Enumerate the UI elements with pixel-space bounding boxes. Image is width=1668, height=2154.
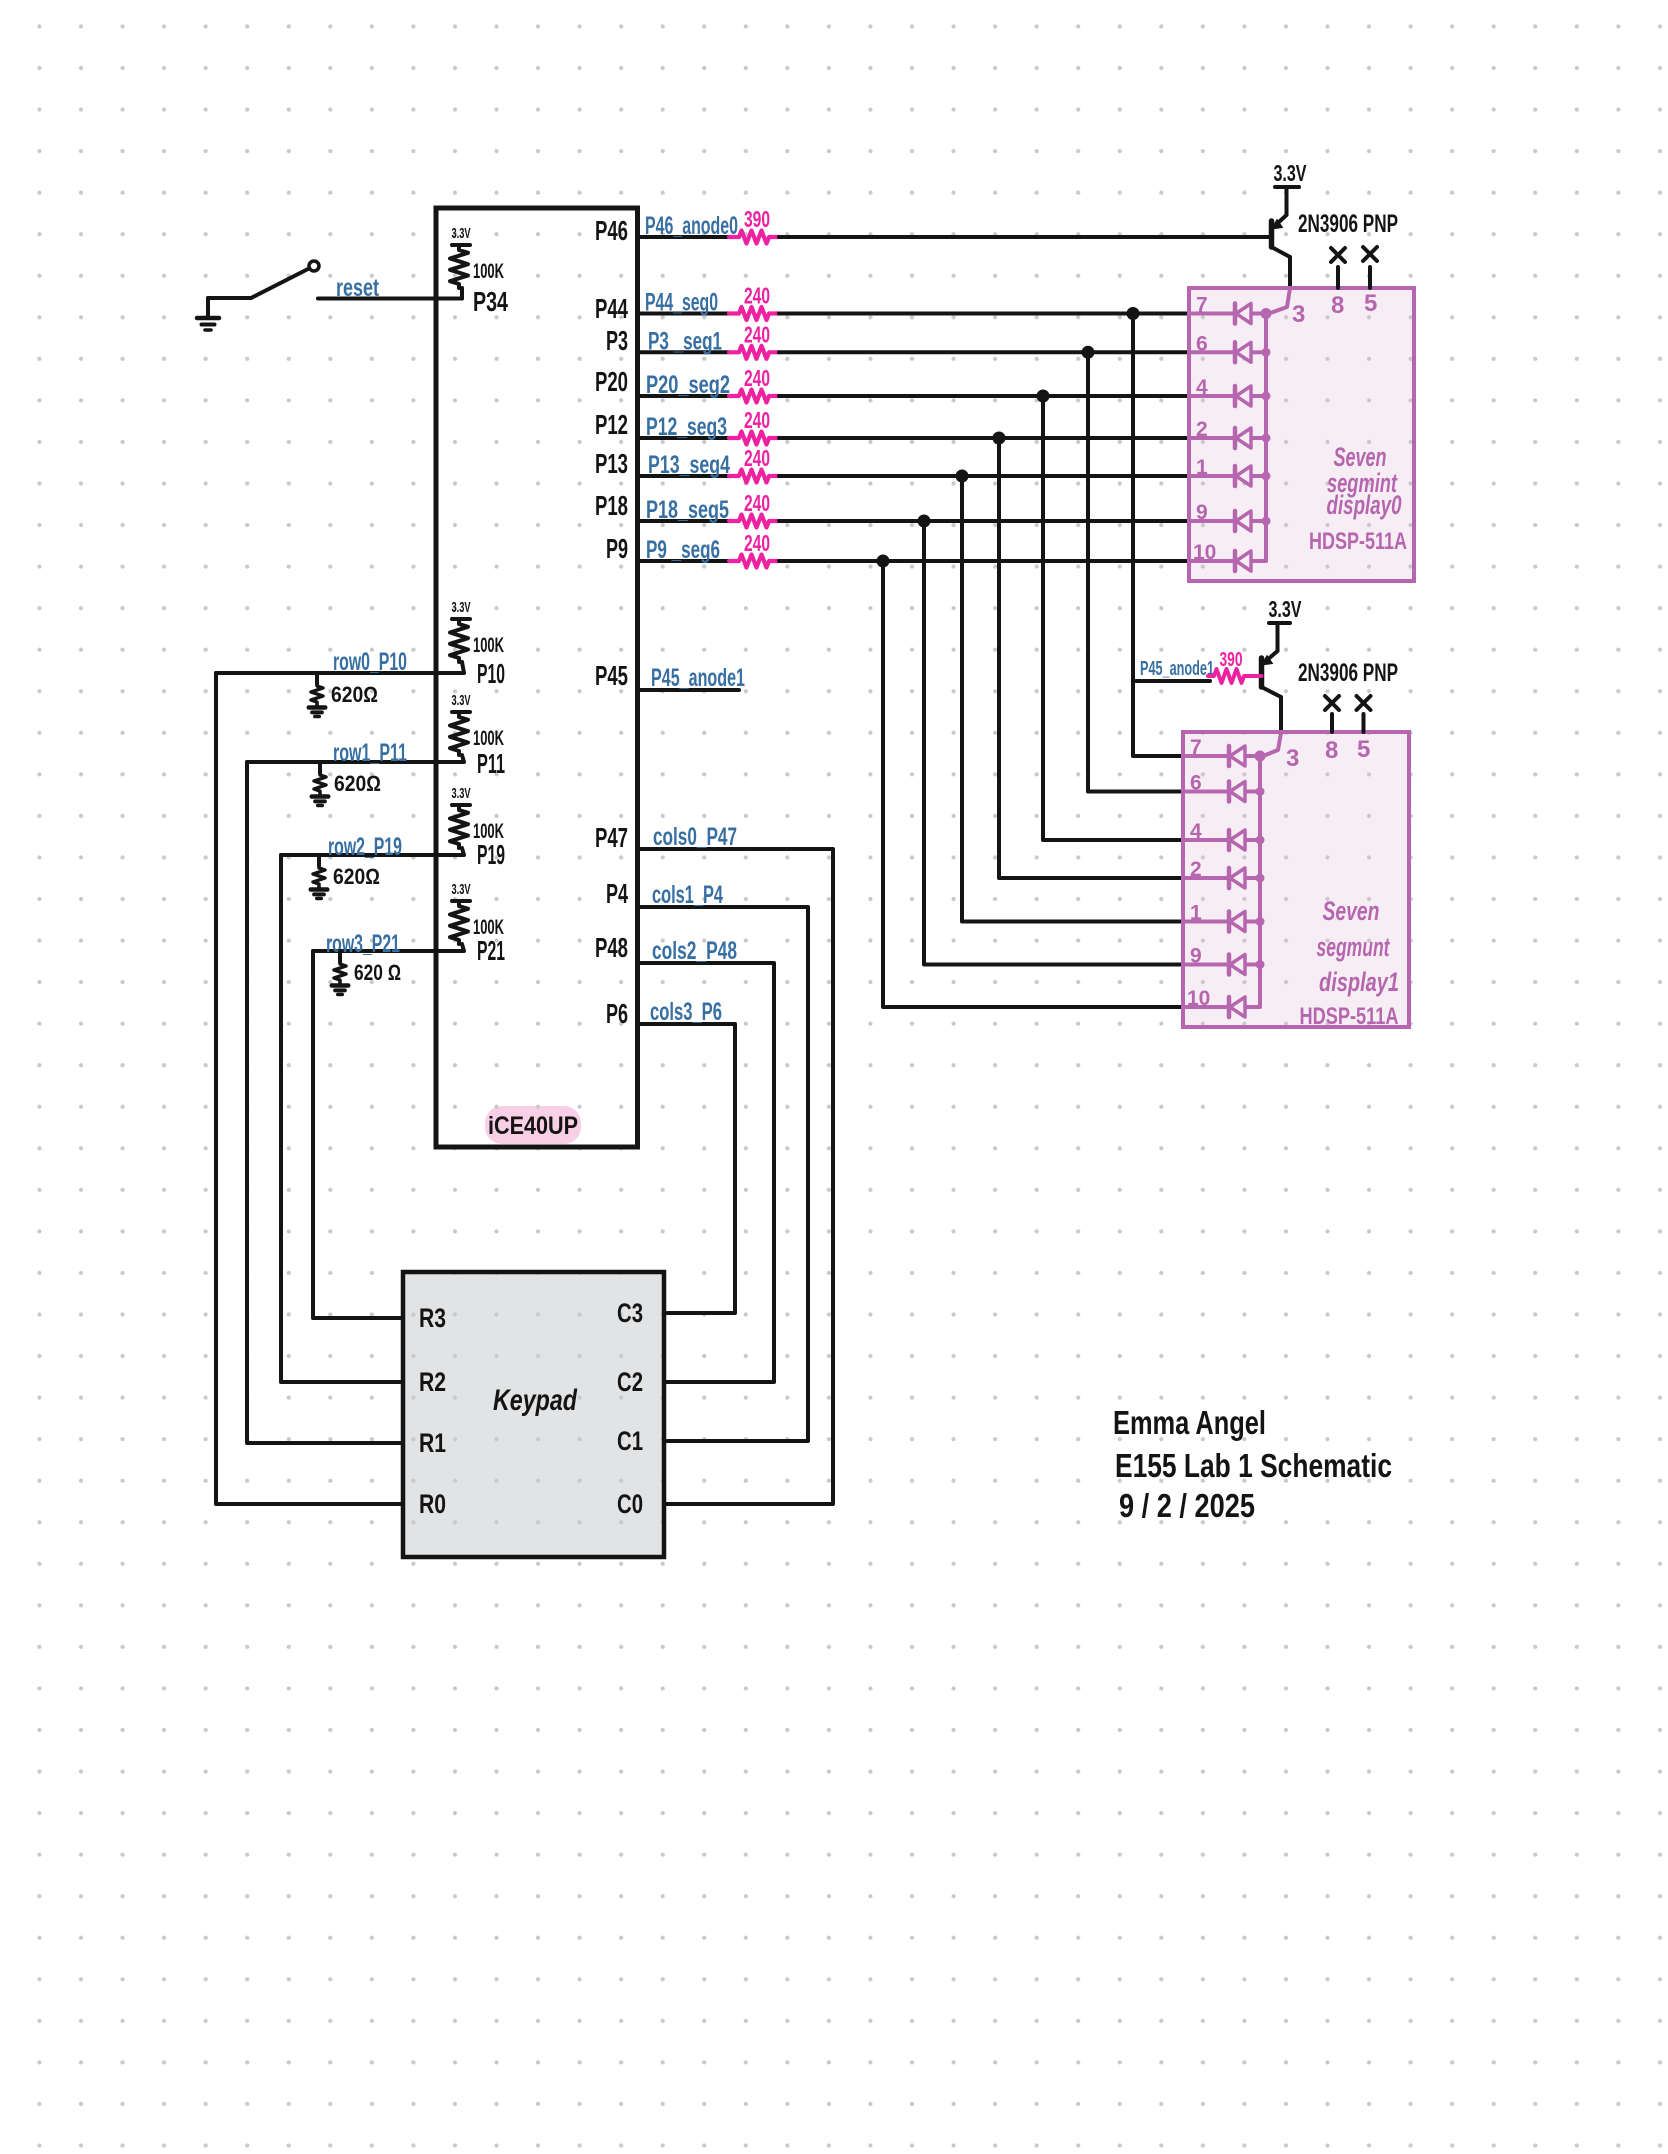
svg-text:P46_anode0: P46_anode0 (645, 212, 738, 240)
svg-text:P12_seg3: P12_seg3 (646, 413, 727, 441)
resistor 620 ohm (row3_P21) (334, 951, 346, 984)
svg-text:cols2_P48: cols2_P48 (652, 937, 737, 965)
svg-text:C2: C2 (617, 1367, 643, 1397)
svg-text:P9 _seg6: P9 _seg6 (646, 536, 720, 564)
svg-text:6: 6 (1190, 772, 1202, 795)
svg-text:100K: 100K (473, 727, 504, 750)
power 3.3V (P10 pull-up) (452, 599, 471, 619)
resistor 100K (P19 pull-up) (450, 806, 504, 848)
junction P3_seg1 node (1082, 346, 1095, 359)
wire P20_seg2 to display1 (1043, 396, 1183, 840)
pin number 9 (display1) (1190, 945, 1202, 968)
svg-text:P11: P11 (477, 748, 505, 779)
svg-text:R2: R2 (419, 1367, 446, 1397)
junction display1 bus pin 9 (1256, 960, 1265, 969)
svg-text:display0: display0 (1327, 490, 1402, 520)
node P20_seg2 label (646, 371, 730, 399)
display0 anode bus (1264, 314, 1268, 562)
node P12_seg3 label (646, 413, 727, 441)
svg-text:3.3V: 3.3V (452, 881, 471, 898)
pin number 1 (display0) (1196, 456, 1208, 479)
node P13_seg4 label (648, 451, 730, 479)
LED diode display0 pin 4 (1189, 386, 1266, 406)
svg-text:7: 7 (1196, 294, 1208, 317)
svg-text:row3_P21: row3_P21 (326, 930, 400, 958)
ground (row0_P10) (309, 706, 326, 717)
svg-text:3.3V: 3.3V (452, 225, 471, 242)
ground (reset switch) (197, 298, 219, 330)
node cols0_P47 label (653, 823, 737, 851)
wire P44_seg0 (left of resistor) (638, 312, 730, 316)
value 390 label (anode1) (1220, 649, 1243, 671)
node P45_anode1 label (651, 664, 745, 692)
resistor 240 ohm (P3) (729, 346, 779, 359)
svg-text:620Ω: 620Ω (333, 864, 380, 889)
wire cols3_P6 to keypad (638, 1024, 736, 1313)
pin P11 (477, 748, 505, 779)
pin number 6 (display1) (1190, 772, 1202, 795)
wire row1_P11 horizontal (247, 755, 464, 762)
wire row3_P21 horizontal (313, 944, 464, 951)
value 620 ohm label (row0_P10) (331, 682, 378, 707)
svg-text:1: 1 (1196, 456, 1208, 479)
wire P3 _seg1 to display0 (779, 350, 1189, 354)
svg-text:row1_P11: row1_P11 (333, 739, 407, 767)
svg-text:C3: C3 (617, 1298, 643, 1328)
wire P18_seg5 to display0 (779, 519, 1189, 523)
svg-text:row2_P19: row2_P19 (328, 833, 402, 861)
node reset label (336, 274, 379, 302)
svg-text:10: 10 (1187, 987, 1210, 1010)
power 3.3V (Q2) (1269, 596, 1302, 623)
svg-text:2: 2 (1190, 858, 1202, 881)
svg-text:5: 5 (1364, 290, 1377, 317)
node P46_anode0 label (645, 212, 738, 240)
wire row3 wire to keypad R3 (313, 951, 403, 1318)
node P45_anode1 label (Q2) (1140, 658, 1214, 680)
svg-text:P12: P12 (595, 409, 628, 440)
pin P18 (595, 490, 628, 521)
wire row1 wire to keypad R1 (247, 762, 403, 1443)
svg-text:P46: P46 (595, 215, 628, 246)
value 240 label (744, 407, 770, 433)
pin 8 no-connect (display0) (1331, 248, 1345, 319)
wire P20_seg2 (left of resistor) (638, 394, 730, 398)
svg-text:reset: reset (336, 274, 379, 302)
junction P18_seg5 node (918, 515, 931, 528)
svg-text:HDSP-511A: HDSP-511A (1300, 1003, 1399, 1030)
power 3.3V (P11 pull-up) (452, 692, 471, 712)
pin P9 (606, 533, 628, 564)
svg-text:240: 240 (744, 530, 770, 556)
svg-text:cols0_P47: cols0_P47 (653, 823, 737, 851)
resistor 390 ohm (anode0) (729, 231, 779, 244)
pin P45 (595, 660, 628, 691)
svg-text:4: 4 (1190, 820, 1202, 843)
pin number 6 (display0) (1196, 332, 1208, 355)
wire P13_seg4 to display0 (779, 474, 1189, 478)
pin C1 (keypad) (617, 1426, 643, 1456)
svg-text:390: 390 (744, 206, 770, 232)
svg-text:P13: P13 (595, 448, 628, 479)
pin P48 (595, 932, 628, 963)
ground (row2_P19) (311, 888, 328, 899)
node cols3_P6 label (650, 998, 722, 1026)
junction P20_seg2 node (1037, 390, 1050, 403)
resistor 240 ohm (P12_seg3) (729, 432, 779, 445)
junction display0 bus pin 4 (1262, 392, 1271, 401)
wire cols2_P48 to keypad (638, 963, 775, 1382)
FPGA U1 iCE40UP box (436, 208, 638, 1147)
node P3 _seg1 label (648, 327, 722, 355)
pin number 4 (display1) (1190, 820, 1202, 843)
junction display0 bus pin 9 (1262, 517, 1271, 526)
pin P47 (595, 822, 628, 853)
resistor 100K (P21 pull-up) (450, 902, 504, 944)
wire P3 _seg1 (left of resistor) (638, 350, 730, 354)
svg-text:P21: P21 (477, 935, 505, 966)
value 620 ohm label (row2_P19) (333, 864, 380, 889)
svg-text:3: 3 (1292, 301, 1305, 328)
junction display1 bus pin 2 (1256, 874, 1265, 883)
svg-text:Keypad: Keypad (493, 1384, 578, 1417)
wire P20_seg2 to display0 (779, 394, 1189, 398)
wire row2 wire to keypad R2 (281, 855, 403, 1382)
pin number 7 (display0) (1196, 294, 1208, 317)
LED diode display1 pin 9 (1183, 955, 1260, 975)
junction P9_seg6 node (877, 555, 890, 568)
LED diode display1 pin 10 (1183, 997, 1260, 1017)
svg-text:P48: P48 (595, 932, 628, 963)
svg-text:3: 3 (1286, 745, 1299, 772)
power 3.3V (P21 pull-up) (452, 881, 471, 901)
wire P9 _seg6 (left of resistor) (638, 559, 730, 563)
pin C2 (keypad) (617, 1367, 643, 1397)
junction display0 bus pin 7 (1261, 308, 1272, 319)
LED diode display1 pin 2 (1183, 868, 1260, 888)
svg-text:240: 240 (744, 321, 770, 347)
svg-text:P3: P3 (606, 325, 628, 356)
title text block (1113, 1404, 1392, 1524)
pin 3 label (display0) (1292, 301, 1305, 328)
node row1_P11 label (333, 739, 407, 767)
junction display1 bus pin 7 (1255, 751, 1266, 762)
label 2N3906 PNP (Q1) (1298, 210, 1398, 238)
svg-text:P45: P45 (595, 660, 628, 691)
seven segment display1 HDSP-511A box (1183, 732, 1409, 1030)
pin number 10 (display0) (1193, 541, 1216, 564)
svg-text:E155 Lab 1 Schematic: E155 Lab 1 Schematic (1115, 1447, 1392, 1484)
value 240 label (744, 445, 770, 471)
pin number 4 (display0) (1196, 376, 1208, 399)
junction P13_seg4 node (956, 470, 969, 483)
svg-text:Seven: Seven (1323, 896, 1380, 926)
pin 3 label (display1) (1286, 745, 1299, 772)
svg-text:display1: display1 (1319, 967, 1399, 997)
svg-text:P44_seg0: P44_seg0 (645, 289, 718, 317)
wire row0 wire to keypad R0 (216, 673, 403, 1504)
pin number 2 (display0) (1196, 418, 1208, 441)
wire reset net (318, 288, 462, 299)
wire anode0 to Q1 base (779, 235, 1270, 239)
value 240 label (744, 490, 770, 516)
svg-text:P3 _seg1: P3 _seg1 (648, 327, 722, 355)
svg-text:2N3906 PNP: 2N3906 PNP (1298, 659, 1398, 687)
svg-text:9 / 2 / 2025: 9 / 2 / 2025 (1119, 1487, 1255, 1524)
wire P44_seg0 to display0 (779, 312, 1189, 316)
svg-text:3.3V: 3.3V (452, 692, 471, 709)
power 3.3V (P34 pull-up) (452, 225, 471, 245)
wire P13_seg4 (left of resistor) (638, 474, 730, 478)
svg-text:Emma Angel: Emma Angel (1113, 1404, 1266, 1441)
svg-text:100K: 100K (473, 260, 504, 283)
svg-text:10: 10 (1193, 541, 1216, 564)
pin number 7 (display1) (1190, 736, 1202, 759)
seven segment display0 HDSP-511A box (1189, 288, 1414, 581)
pin 5 no-connect (display0) (1363, 247, 1377, 317)
svg-text:P6: P6 (606, 998, 628, 1029)
svg-text:620Ω: 620Ω (334, 771, 381, 796)
LED diode display1 pin 4 (1183, 830, 1260, 850)
svg-text:3.3V: 3.3V (452, 785, 471, 802)
junction P44_seg0 node (1127, 307, 1140, 320)
node P44_seg0 label (645, 289, 718, 317)
svg-text:P18_seg5: P18_seg5 (646, 496, 729, 524)
svg-text:P18: P18 (595, 490, 628, 521)
svg-text:240: 240 (744, 445, 770, 471)
pin C3 (keypad) (617, 1298, 643, 1328)
svg-text:8: 8 (1325, 737, 1338, 764)
pin P12 (595, 409, 628, 440)
resistor 390 ohm (anode1) (1208, 669, 1262, 683)
svg-text:9: 9 (1190, 945, 1202, 968)
LED diode display0 pin 2 (1189, 428, 1266, 448)
LED diode display1 pin 7 (1183, 746, 1260, 766)
svg-text:5: 5 (1357, 736, 1370, 763)
svg-text:100K: 100K (473, 634, 504, 657)
wire P12_seg3 to display1 (999, 438, 1183, 878)
svg-text:P20: P20 (595, 366, 628, 397)
resistor 100K (P11 pull-up) (450, 713, 504, 755)
node cols2_P48 label (652, 937, 737, 965)
svg-text:240: 240 (744, 490, 770, 516)
transistor Q1 2N3906 PNP (1272, 187, 1291, 288)
svg-text:P45_anode1: P45_anode1 (651, 664, 745, 692)
value 620 ohm label (row3_P21) (354, 960, 401, 985)
svg-text:C0: C0 (617, 1489, 643, 1519)
node row0_P10 label (333, 648, 407, 676)
resistor 240 ohm (P9) (729, 555, 779, 568)
pin P4 (606, 878, 628, 909)
value 240 label (744, 321, 770, 347)
svg-text:P13_seg4: P13_seg4 (648, 451, 730, 479)
svg-text:240: 240 (744, 365, 770, 391)
pin P20 (595, 366, 628, 397)
resistor 620 ohm (row1_P11) (314, 762, 326, 795)
ground (row3_P21) (332, 984, 349, 995)
LED diode display0 pin 9 (1189, 511, 1266, 531)
pin P10 (477, 658, 505, 689)
junction display0 bus pin 2 (1262, 434, 1271, 443)
svg-text:P10: P10 (477, 658, 505, 689)
wire P9_seg6 to display1 (883, 561, 1183, 1007)
pin P44 (595, 293, 628, 324)
transistor Q2 2N3906 PNP (1262, 623, 1282, 733)
value 240 label (744, 283, 770, 309)
resistor 240 ohm (P20_seg2) (729, 390, 779, 403)
pin P3 (606, 325, 628, 356)
wire P44_seg0 to display1 (1133, 314, 1183, 757)
pin P19 (477, 839, 505, 870)
wire P18_seg5 (left of resistor) (638, 519, 730, 523)
ground (row1_P11) (312, 795, 329, 806)
wire Q2 collector to display1 pin 3 (1263, 733, 1281, 756)
wire P46_anode0 (left of resistor) (638, 235, 730, 239)
svg-text:R3: R3 (419, 1303, 446, 1333)
resistor 100K (P10 pull-up) (450, 620, 504, 662)
svg-text:C1: C1 (617, 1426, 643, 1456)
pin 8 no-connect (display1) (1325, 696, 1339, 764)
svg-text:7: 7 (1190, 736, 1202, 759)
pin R3 (keypad) (419, 1303, 446, 1333)
value 240 label (744, 365, 770, 391)
svg-text:R0: R0 (419, 1489, 446, 1519)
wire P12_seg3 (left of resistor) (638, 436, 730, 440)
svg-text:P20_seg2: P20_seg2 (646, 371, 730, 399)
junction display0 bus pin 6 (1262, 348, 1271, 357)
svg-text:P34: P34 (473, 286, 508, 317)
pin number 9 (display0) (1196, 501, 1208, 524)
pin P6 (606, 998, 628, 1029)
wire P45_anode1 (Q2 base) (1136, 679, 1210, 683)
svg-text:620 Ω: 620 Ω (354, 960, 401, 985)
node row2_P19 label (328, 833, 402, 861)
resistor 240 ohm (P13_seg4) (729, 470, 779, 483)
svg-text:HDSP-511A: HDSP-511A (1309, 528, 1407, 555)
svg-text:2: 2 (1196, 418, 1208, 441)
wire cols1_P4 to keypad (638, 907, 809, 1441)
svg-text:iCE40UP: iCE40UP (488, 1112, 578, 1140)
wire P9 _seg6 to display0 (779, 559, 1189, 563)
LED diode display0 pin 6 (1189, 342, 1266, 362)
svg-text:620Ω: 620Ω (331, 682, 378, 707)
svg-text:1: 1 (1190, 902, 1202, 925)
svg-text:8: 8 (1331, 292, 1344, 319)
pin number 2 (display1) (1190, 858, 1202, 881)
svg-text:P19: P19 (477, 839, 505, 870)
resistor 100K (P34 pull-up) (450, 246, 504, 288)
svg-text:row0_P10: row0_P10 (333, 648, 407, 676)
resistor 620 ohm (row2_P19) (313, 855, 325, 888)
svg-text:2N3906 PNP: 2N3906 PNP (1298, 210, 1398, 238)
junction display1 bus pin 1 (1256, 917, 1265, 926)
pin number 10 (display1) (1187, 987, 1210, 1010)
power 3.3V (P19 pull-up) (452, 785, 471, 805)
svg-text:cols1_P4: cols1_P4 (652, 881, 723, 909)
node row3_P21 label (326, 930, 400, 958)
value 240 label (744, 530, 770, 556)
svg-text:9: 9 (1196, 501, 1208, 524)
node P18_seg5 label (646, 496, 729, 524)
svg-text:P45_anode1: P45_anode1 (1140, 658, 1214, 680)
label 2N3906 PNP (Q2) (1298, 659, 1398, 687)
resistor 240 ohm (P18_seg5) (729, 515, 779, 528)
pin P13 (595, 448, 628, 479)
svg-text:segmunt: segmunt (1317, 932, 1391, 962)
node cols1_P4 label (652, 881, 723, 909)
wire row0_P10 horizontal (216, 662, 464, 673)
svg-text:P47: P47 (595, 822, 628, 853)
pin R2 (keypad) (419, 1367, 446, 1397)
pin C0 (keypad) (617, 1489, 643, 1519)
wire P3_seg1 to display1 (1088, 352, 1183, 791)
pin R1 (keypad) (419, 1428, 446, 1458)
pin number 1 (display1) (1190, 902, 1202, 925)
svg-text:4: 4 (1196, 376, 1208, 399)
pin P21 (477, 935, 505, 966)
wire P45_anode1 stub (638, 688, 740, 692)
resistor 240 ohm (P44_seg0) (729, 307, 779, 320)
svg-text:390: 390 (1220, 649, 1243, 671)
value 390 label (744, 206, 770, 232)
svg-text:cols3_P6: cols3_P6 (650, 998, 722, 1026)
node P9 _seg6 label (646, 536, 720, 564)
junction P12_seg3 node (993, 432, 1006, 445)
keypad module box (403, 1272, 664, 1557)
junction display1 bus pin 4 (1256, 836, 1265, 845)
wire P12_seg3 to display0 (779, 436, 1189, 440)
pin P34 (473, 286, 508, 317)
svg-text:6: 6 (1196, 332, 1208, 355)
junction display0 bus pin 1 (1262, 472, 1271, 481)
resistor 620 ohm (row0_P10) (311, 673, 323, 706)
pin 5 no-connect (display1) (1357, 696, 1371, 763)
wire P18_seg5 to display1 (924, 521, 1183, 965)
value 620 ohm label (row1_P11) (334, 771, 381, 796)
wire Q1 collector to display0 pin 3 (1269, 288, 1290, 314)
svg-text:240: 240 (744, 407, 770, 433)
svg-text:240: 240 (744, 283, 770, 309)
power 3.3V (Q1) (1274, 160, 1307, 187)
LED diode display0 pin 7 (1189, 304, 1266, 324)
wire row2_P19 horizontal (281, 848, 464, 855)
svg-text:3.3V: 3.3V (1269, 596, 1302, 622)
pin R0 (keypad) (419, 1489, 446, 1519)
svg-text:3.3V: 3.3V (1274, 160, 1307, 186)
LED diode display0 pin 10 (1189, 551, 1266, 571)
svg-text:P4: P4 (606, 878, 628, 909)
svg-text:P44: P44 (595, 293, 628, 324)
svg-text:P9: P9 (606, 533, 628, 564)
pin P46 (595, 215, 628, 246)
junction display1 bus pin 6 (1256, 787, 1265, 796)
LED diode display1 pin 1 (1183, 912, 1260, 932)
LED diode display1 pin 6 (1183, 782, 1260, 802)
wire P13_seg4 to display1 (962, 476, 1183, 922)
display1 anode bus (1258, 756, 1262, 1007)
svg-text:R1: R1 (419, 1428, 446, 1458)
switch SW1 reset (208, 261, 319, 298)
svg-text:3.3V: 3.3V (452, 599, 471, 616)
LED diode display0 pin 1 (1189, 466, 1266, 486)
wire cols0_P47 to keypad (638, 849, 834, 1504)
